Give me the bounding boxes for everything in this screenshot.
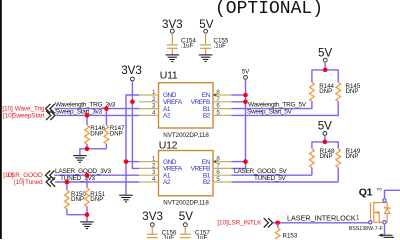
svg-text:DNP: DNP <box>110 130 123 137</box>
ground (under R150/R151) <box>80 222 94 229</box>
op IC U12 body <box>159 140 214 207</box>
resistor R147 DNP <box>104 109 125 149</box>
node R150/R151 bottom junction <box>85 212 90 217</box>
svg-text:Sweep_Start_5V: Sweep_Start_5V <box>247 108 293 115</box>
svg-text:[10]: [10] <box>14 179 25 186</box>
power symbol 3V3 (left of U11) <box>121 64 142 81</box>
svg-text:LSR_INTLK: LSR_INTLK <box>228 220 262 227</box>
wire R150/R151 bottoms to ground <box>67 215 87 222</box>
svg-text:DNP: DNP <box>346 153 359 160</box>
svg-text:DNP: DNP <box>346 88 359 95</box>
wire Q1 source down <box>384 224 386 235</box>
wire TUNED_5V <box>232 181 339 183</box>
svg-text:3V3: 3V3 <box>121 64 142 77</box>
pin end circle gate <box>369 221 372 224</box>
power symbol 3V3 (top, over C154) <box>162 18 183 45</box>
wire 5V rail for R148/R149 <box>312 142 338 149</box>
wire LASER_GOOD_3V3 <box>54 174 139 176</box>
node chevron LSR_GOOD <box>46 171 55 180</box>
resistor R148 DNP <box>310 148 335 175</box>
zener cathode bar <box>385 207 390 210</box>
svg-text:U12: U12 <box>159 140 178 152</box>
resistor R145 DNP <box>336 82 361 101</box>
svg-text:Sweep_Start_3v3: Sweep_Start_3v3 <box>55 108 102 115</box>
ground (under R146/R147) <box>73 156 87 163</box>
wire LASER_GOOD_5V <box>232 174 312 176</box>
node lower 5V rail junction <box>323 140 328 145</box>
wire R146/R147 bottoms to ground <box>80 149 107 156</box>
wire U11 pin7 to 5V vertical <box>232 101 246 103</box>
node GND / U12 pin 1 junction <box>124 159 129 164</box>
op IC U11 body <box>159 70 214 139</box>
svg-text:(OPTIONAL): (OPTIONAL) <box>215 0 323 19</box>
svg-text:DNP: DNP <box>90 196 103 203</box>
svg-text:5V: 5V <box>179 210 193 223</box>
svg-text:[10]: [10] <box>217 220 228 227</box>
node chevron Wave_Trig <box>46 104 55 113</box>
svg-text:.1uF: .1uF <box>181 43 194 50</box>
svg-text:5V: 5V <box>318 47 332 60</box>
node U12 pin8 junction <box>243 159 248 164</box>
body stub <box>374 212 379 222</box>
svg-text:DNP: DNP <box>319 88 332 95</box>
svg-text:4: 4 <box>152 176 156 183</box>
wire GND net: U11 pin1 left, down to ground <box>126 95 139 195</box>
power symbol 5V (top right rail) <box>318 47 332 70</box>
node chevron LSR_INTLK <box>264 218 273 227</box>
wire U12 pin1 GND stub to vertical <box>126 161 139 163</box>
resistor R150 DNP <box>65 182 87 215</box>
power symbol 5V (small, over U11 pin 8) <box>242 69 250 80</box>
capacitor C156 <box>147 229 177 240</box>
svg-text:3: 3 <box>377 187 384 191</box>
diode triangle <box>385 208 390 213</box>
svg-text:NVT2002DP,118: NVT2002DP,118 <box>163 132 209 139</box>
channel bar <box>373 202 375 223</box>
U11 pin stubs left <box>139 95 159 115</box>
node 5V rail junction <box>323 68 328 73</box>
node R147 top junction <box>104 106 109 111</box>
svg-text:DNP: DNP <box>320 153 333 160</box>
svg-text:5: 5 <box>216 176 220 183</box>
svg-text:Tuned: Tuned <box>25 179 43 186</box>
node chevron SweepStart <box>46 111 55 120</box>
svg-text:TUNED_5V: TUNED_5V <box>254 175 287 182</box>
svg-text:B2: B2 <box>203 179 211 186</box>
wire Sweep_Start_5V <box>232 101 339 115</box>
source stub <box>374 221 385 223</box>
power symbol 5V (bottom, over C157) <box>179 210 193 234</box>
svg-text:.1uF: .1uF <box>162 235 175 240</box>
power symbol 5V (lower right rail) <box>318 120 332 142</box>
gate bar <box>370 203 372 221</box>
svg-text:BSS138W-7-F: BSS138W-7-F <box>349 226 384 232</box>
resistor R153 <box>275 223 297 240</box>
svg-text:DNP: DNP <box>90 130 103 137</box>
node chevron Tuned <box>46 177 55 186</box>
ground (below U12 GND rail) <box>119 195 133 202</box>
node U11 pin8 junction <box>243 93 248 98</box>
wire 5V rail for R144/R145 <box>312 70 338 82</box>
drain stub <box>374 202 385 204</box>
power symbol 3V3 (bottom, over C156) <box>142 210 163 234</box>
pin end circle source <box>383 221 386 224</box>
svg-text:5: 5 <box>216 109 220 116</box>
svg-text:LASER_INTERLOCK: LASER_INTERLOCK <box>287 213 356 222</box>
svg-text:A2: A2 <box>163 179 171 186</box>
node R146 bottom junction <box>85 147 90 152</box>
node R151 top junction <box>85 173 90 178</box>
U12 pin stubs right <box>213 162 232 182</box>
wire 3V3 vertical to U11 VREFA and U12 VREFA <box>132 81 139 168</box>
ground (under C154) <box>166 55 180 62</box>
body arrow <box>375 211 379 214</box>
node U11 pin7 junction <box>243 100 248 105</box>
wire 5V vertical to EN/VREFB pins of U11 and U12 <box>232 79 246 168</box>
node R150 top junction <box>65 180 70 185</box>
resistor R146 DNP <box>85 115 106 148</box>
U12 EN pin-8 arrow <box>213 160 217 164</box>
svg-text:5V: 5V <box>242 69 250 76</box>
U12 pin numbers <box>152 156 220 183</box>
U11 pin numbers <box>152 89 220 116</box>
diode column <box>385 203 388 208</box>
node 3V3 / U11 pin 2 junction <box>130 100 135 105</box>
svg-text:5V: 5V <box>318 120 332 133</box>
wire U11 pin8 to 5V vertical <box>232 94 246 96</box>
wire Q1 drain to right edge <box>385 190 400 198</box>
drain pin riser <box>384 201 386 204</box>
wire Sweep_Start_3v3 <box>55 114 139 116</box>
svg-text:4: 4 <box>152 109 156 116</box>
svg-text:U11: U11 <box>160 70 178 82</box>
svg-text:.1uF: .1uF <box>214 43 227 50</box>
capacitor C157 <box>180 229 211 240</box>
power symbol 5V (top, over C155) <box>199 18 213 45</box>
svg-text:DNP: DNP <box>71 196 84 203</box>
svg-text:B2: B2 <box>203 113 211 120</box>
capacitor C155 <box>200 38 229 55</box>
U12 pin stubs left <box>139 162 159 182</box>
U11 EN pin-8 arrow <box>213 93 217 97</box>
ground (arrow style, under Q1 source) <box>378 234 394 238</box>
svg-text:Q1: Q1 <box>359 187 373 199</box>
wire U12 pin8 to 5V vertical <box>232 161 246 163</box>
wire LASER_INTERLOCK <box>273 222 369 224</box>
pin end circle drain <box>383 199 386 202</box>
ground (under C155) <box>199 55 213 62</box>
resistor R149 DNP <box>336 148 361 182</box>
svg-text:.1uF: .1uF <box>195 235 208 240</box>
U11 pin stubs right <box>213 95 232 115</box>
transistor Q1 BSS138W-7-F <box>349 187 390 232</box>
svg-text:A2: A2 <box>163 113 171 120</box>
node R146 top junction <box>85 113 90 118</box>
svg-text:SweepStart: SweepStart <box>12 112 44 119</box>
wire Wavelength_TRG_5V <box>232 101 312 108</box>
node LASER_INTERLOCK junction <box>275 221 280 226</box>
resistor R151 DNP <box>85 175 106 215</box>
svg-text:R153: R153 <box>283 233 298 240</box>
resistor R144 DNP <box>310 82 335 101</box>
svg-text:3V3: 3V3 <box>142 210 163 223</box>
sheet border left edge <box>0 0 2 239</box>
capacitor C154 <box>167 38 197 55</box>
wire Wavelength_TRG_3v3 <box>55 108 140 110</box>
svg-text:1: 1 <box>356 215 360 222</box>
svg-text:NVT2002DP,118: NVT2002DP,118 <box>163 199 209 206</box>
wire TUNED_3V3 <box>55 181 139 183</box>
